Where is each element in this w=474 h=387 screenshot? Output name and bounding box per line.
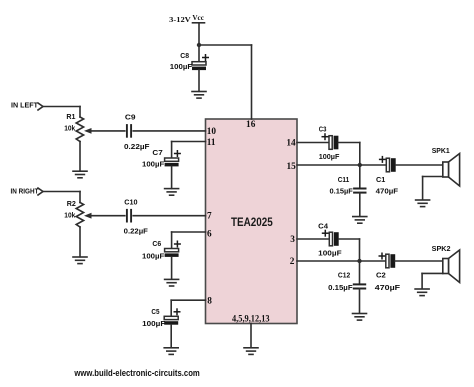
svg-text:IN LEFT: IN LEFT <box>11 100 38 109</box>
svg-text:C6: C6 <box>152 239 161 248</box>
svg-text:100µF: 100µF <box>142 251 165 260</box>
svg-text:100µF: 100µF <box>142 160 165 169</box>
svg-text:8: 8 <box>207 297 212 307</box>
svg-text:11: 11 <box>207 138 216 148</box>
svg-text:14: 14 <box>286 139 296 149</box>
svg-text:SPK2: SPK2 <box>432 244 451 253</box>
svg-text:3: 3 <box>290 235 295 245</box>
svg-text:R2: R2 <box>67 199 76 208</box>
svg-text:TEA2025: TEA2025 <box>231 215 273 229</box>
svg-text:100µF: 100µF <box>319 152 340 161</box>
svg-text:470µF: 470µF <box>376 187 399 196</box>
svg-text:10: 10 <box>207 127 217 137</box>
svg-text:C10: C10 <box>124 198 137 207</box>
svg-text:C8: C8 <box>180 51 189 60</box>
svg-text:C12: C12 <box>338 271 350 280</box>
svg-text:SPK1: SPK1 <box>432 146 450 155</box>
svg-text:IN RIGHT: IN RIGHT <box>11 186 39 195</box>
svg-text:0.15µF: 0.15µF <box>330 187 354 196</box>
svg-text:10k: 10k <box>64 124 76 133</box>
svg-text:4,5,9,12,13: 4,5,9,12,13 <box>232 313 270 323</box>
svg-text:0.22µF: 0.22µF <box>124 142 150 151</box>
svg-text:www.build-electronic-circuits.: www.build-electronic-circuits.com <box>74 368 200 378</box>
svg-text:C1: C1 <box>376 175 385 184</box>
svg-text:C7: C7 <box>152 148 162 157</box>
svg-text:3-12V: 3-12V <box>169 15 191 24</box>
svg-text:15: 15 <box>287 162 297 172</box>
svg-text:Vcc: Vcc <box>192 14 204 22</box>
svg-text:2: 2 <box>290 257 295 267</box>
svg-text:C3: C3 <box>319 124 327 133</box>
svg-text:10k: 10k <box>64 210 76 219</box>
svg-text:100µF: 100µF <box>170 62 193 71</box>
svg-text:0.15µF: 0.15µF <box>328 283 353 292</box>
svg-text:C11: C11 <box>338 175 350 184</box>
svg-text:100µF: 100µF <box>318 249 342 258</box>
svg-text:0.22µF: 0.22µF <box>124 226 149 235</box>
svg-text:C5: C5 <box>151 307 159 316</box>
svg-text:6: 6 <box>207 229 212 239</box>
svg-text:C2: C2 <box>376 271 386 280</box>
svg-text:16: 16 <box>246 120 256 130</box>
svg-text:470µF: 470µF <box>375 283 401 292</box>
svg-text:100µF: 100µF <box>142 319 166 328</box>
svg-text:C4: C4 <box>318 222 329 231</box>
svg-text:R1: R1 <box>66 112 75 121</box>
svg-text:7: 7 <box>207 212 212 222</box>
svg-text:C9: C9 <box>125 112 136 121</box>
